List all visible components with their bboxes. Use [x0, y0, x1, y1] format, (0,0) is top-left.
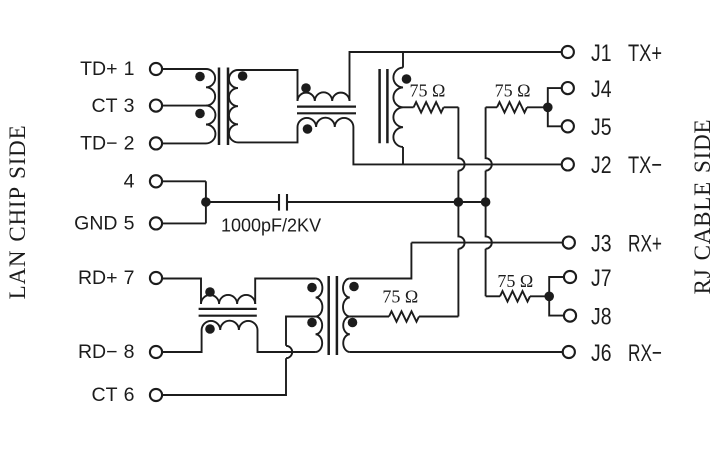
- pin 2 terminal: [150, 137, 162, 149]
- polarity dot T1 primary upper: [195, 72, 205, 82]
- svg-text:CT: CT: [92, 384, 118, 406]
- svg-text:TX+: TX+: [628, 40, 662, 67]
- wire pin 8 to choke L2: [162, 330, 201, 352]
- choke L1 lower winding: [298, 118, 354, 127]
- polarity dot L1 upper: [301, 83, 311, 93]
- wire pin 5 stub: [162, 222, 206, 224]
- vertical bus node B with hops: [486, 107, 492, 296]
- terminal J7: [564, 271, 576, 283]
- wire node B to R3: [486, 106, 497, 108]
- junction J7/J8 tie: [544, 292, 554, 302]
- transformer T1 core: [219, 68, 228, 146]
- wire pin 4 stub: [162, 180, 206, 182]
- wire R4 to J7/J8 junction: [530, 295, 549, 297]
- svg-text:J6: J6: [591, 340, 612, 367]
- wire L1 upper to J1 rail: [350, 52, 563, 101]
- terminal J1: [562, 46, 574, 58]
- polarity dot L2 upper: [205, 287, 215, 297]
- pin 8 terminal: [150, 346, 162, 358]
- J3 rail: [411, 242, 562, 244]
- svg-text:TD−: TD−: [80, 133, 117, 155]
- polarity dot T3 secondary lower: [348, 318, 358, 328]
- polarity dot T1 primary lower: [195, 109, 205, 119]
- svg-text:TD+: TD+: [80, 58, 117, 80]
- autotransformer T2 winding across J1-J2: [393, 52, 403, 164]
- transformer T3 primary winding lower: [316, 317, 323, 353]
- svg-text:RX−: RX−: [628, 340, 662, 367]
- terminal J6: [563, 346, 575, 358]
- bracket wire to J4 and J5: [548, 88, 562, 126]
- svg-text:J7: J7: [591, 265, 612, 292]
- svg-text:75 Ω: 75 Ω: [382, 286, 418, 306]
- pin 3 terminal: [150, 100, 162, 112]
- junction node B on capacitor rail: [481, 197, 491, 207]
- pin 6 terminal: [150, 389, 162, 401]
- wire R2 to node A: [419, 316, 458, 318]
- svg-text:7: 7: [124, 267, 135, 289]
- junction J4/J5 tie: [543, 103, 553, 113]
- resistor R4: [500, 291, 530, 301]
- wire pins 4-5 tie: [205, 181, 207, 223]
- wire T1 secondary top to choke L1: [238, 70, 298, 101]
- transformer T3 core: [329, 276, 337, 355]
- svg-text:J4: J4: [591, 76, 612, 103]
- choke L2 upper winding: [201, 295, 255, 304]
- svg-text:J5: J5: [591, 114, 612, 141]
- terminal J8: [564, 310, 576, 322]
- svg-text:3: 3: [124, 95, 135, 117]
- pin 7 terminal: [150, 272, 162, 284]
- wire T3 secondary top to J3 rail: [350, 243, 412, 279]
- polarity dot T1 secondary: [238, 71, 248, 81]
- svg-text:TX−: TX−: [628, 152, 662, 179]
- polarity dot T3 primary upper: [307, 283, 317, 293]
- wire pin 1 to T1 primary: [162, 68, 206, 70]
- terminal J5: [562, 120, 574, 132]
- svg-text:J2: J2: [591, 152, 612, 179]
- choke L1 core: [297, 107, 356, 114]
- polarity dot T3 secondary upper: [349, 282, 359, 292]
- transformer T1 primary winding upper (pins 1-3): [206, 69, 215, 106]
- svg-text:75 Ω: 75 Ω: [495, 81, 531, 101]
- transformer T3 primary winding upper: [316, 279, 323, 317]
- svg-text:J8: J8: [591, 303, 612, 330]
- svg-text:J1: J1: [591, 40, 612, 67]
- autotransformer T2 core: [380, 69, 388, 143]
- vertical bus node A with hops: [458, 107, 464, 316]
- wire pin 3 to T1 center tap: [162, 105, 206, 107]
- transformer T1 secondary winding: [229, 70, 238, 142]
- junction node A on capacitor rail: [454, 197, 464, 207]
- choke L1 upper winding: [298, 92, 350, 101]
- pin 1 terminal: [150, 63, 162, 75]
- svg-text:GND: GND: [74, 213, 117, 235]
- wire pin 2 to T1 primary: [162, 142, 206, 144]
- svg-text:RD+: RD+: [78, 267, 118, 289]
- choke L2 lower winding: [202, 321, 258, 330]
- wire C1 to termination bus: [287, 201, 486, 203]
- wire T3 tap to R2: [350, 316, 389, 318]
- svg-text:J3: J3: [591, 230, 612, 257]
- wire L2 lower to T3: [258, 330, 316, 352]
- terminal J3: [563, 237, 575, 249]
- svg-text:LAN CHIP SIDE: LAN CHIP SIDE: [5, 125, 30, 300]
- svg-text:6: 6: [124, 384, 135, 406]
- wire node B corner to R4: [486, 295, 500, 297]
- wire L1 lower to J2 rail: [353, 127, 562, 164]
- svg-text:RX+: RX+: [628, 230, 662, 257]
- svg-text:CT: CT: [92, 95, 118, 117]
- resistor R2: [389, 311, 419, 321]
- svg-text:RD−: RD−: [78, 341, 118, 363]
- bracket wire to J7 and J8: [549, 277, 564, 316]
- svg-text:75 Ω: 75 Ω: [497, 271, 533, 291]
- polarity dot L1 lower: [303, 124, 313, 134]
- wire pin 6 to T3 tap with hop: [162, 317, 315, 396]
- svg-text:2: 2: [124, 133, 135, 155]
- capacitor C1 plates: [279, 194, 287, 211]
- svg-text:75 Ω: 75 Ω: [409, 81, 445, 101]
- resistor R3: [497, 102, 527, 112]
- polarity dot T3 primary lower: [307, 318, 317, 328]
- J6 rail: [350, 351, 562, 353]
- wire pin 7 to choke L2: [162, 279, 201, 305]
- wire T2 tap to R1: [403, 106, 414, 108]
- wire R1 to node A: [444, 106, 459, 108]
- resistor R1: [414, 102, 444, 112]
- junction pins 4/5: [201, 197, 211, 207]
- wire T1 secondary bottom to choke L1: [238, 127, 298, 142]
- wire junction to C1: [206, 201, 279, 203]
- choke L2 core: [199, 309, 257, 316]
- svg-text:1: 1: [124, 58, 135, 80]
- svg-text:5: 5: [124, 213, 135, 235]
- transformer T1 primary winding lower (pins 3-2): [206, 106, 215, 144]
- wire R3 to J4/J5 junction: [527, 106, 548, 108]
- polarity dot L2 lower: [205, 324, 215, 334]
- svg-text:8: 8: [124, 341, 135, 363]
- transformer T3 secondary winding upper: [343, 279, 350, 317]
- terminal J2: [562, 158, 574, 170]
- svg-text:1000pF/2KV: 1000pF/2KV: [221, 216, 321, 236]
- pin 5 terminal: [150, 217, 162, 229]
- terminal J4: [562, 82, 574, 94]
- polarity dot T2: [402, 74, 412, 84]
- transformer T3 secondary winding lower: [343, 317, 350, 353]
- svg-text:RJ CABLE SIDE: RJ CABLE SIDE: [690, 119, 715, 295]
- wire L2 upper to T3: [255, 279, 315, 305]
- svg-text:4: 4: [124, 171, 135, 193]
- pin 4 terminal: [150, 175, 162, 187]
